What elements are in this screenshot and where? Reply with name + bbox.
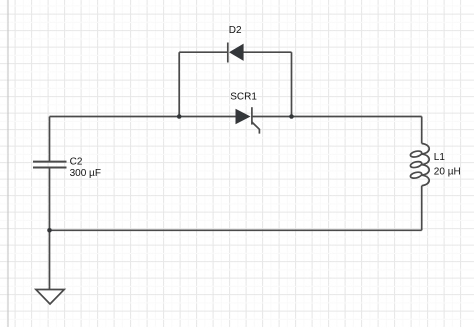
svg-text:SCR1: SCR1 <box>230 92 257 103</box>
svg-text:C2: C2 <box>70 157 83 168</box>
svg-text:300 µF: 300 µF <box>70 168 101 179</box>
svg-text:L1: L1 <box>434 152 446 163</box>
svg-text:20 µH: 20 µH <box>434 167 461 178</box>
svg-text:D2: D2 <box>229 25 242 36</box>
